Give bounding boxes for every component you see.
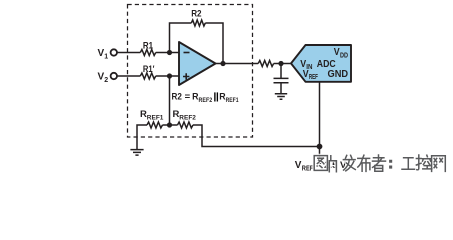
watermark white halo bbox=[314, 155, 445, 172]
svg-text:R1′: R1′ bbox=[143, 64, 155, 75]
svg-text:1: 1 bbox=[104, 53, 108, 60]
resistor R1 bbox=[140, 50, 155, 56]
wire V2 to R1' bbox=[117, 75, 140, 77]
resistor RREF2 bbox=[178, 122, 193, 128]
wire feedback left vertical bbox=[170, 23, 192, 53]
op-amp minus pin mark bbox=[184, 52, 190, 54]
wire stub down to VREF label bbox=[319, 147, 321, 159]
svg-text:REF: REF bbox=[302, 165, 314, 172]
wire RREF2 to VREF node bbox=[193, 125, 320, 147]
svg-text:2: 2 bbox=[104, 77, 108, 84]
svg-text:GND: GND bbox=[328, 69, 349, 80]
resistor R1' bbox=[140, 73, 155, 79]
capacitor C1 bbox=[274, 78, 289, 82]
svg-text:REF: REF bbox=[309, 74, 318, 81]
svg-text:V: V bbox=[295, 160, 302, 171]
wire RREF1 left bbox=[137, 125, 147, 150]
watermark colon bbox=[390, 160, 392, 168]
op-amp A1 bbox=[179, 42, 216, 85]
svg-text:R2: R2 bbox=[172, 92, 182, 103]
node: VREF junction bbox=[317, 144, 323, 150]
svg-text:REF2: REF2 bbox=[179, 115, 196, 122]
node: op-amp output junction bbox=[220, 61, 225, 66]
watermark char 片 bbox=[329, 156, 336, 172]
wire V1 to R1 bbox=[117, 52, 140, 54]
op-amp plus pin mark bbox=[183, 73, 189, 79]
node: R1 to feedback junction bbox=[167, 50, 172, 55]
wire feedback right vertical bbox=[205, 23, 223, 64]
wire RREF1 to RREF2 bbox=[162, 124, 177, 126]
wire capacitor to ground bbox=[280, 83, 282, 94]
svg-text:R2: R2 bbox=[191, 8, 201, 19]
wire to ADC VIN bbox=[274, 63, 291, 65]
svg-text:DD: DD bbox=[340, 52, 348, 59]
node: reference divider junction bbox=[167, 122, 172, 127]
wire R1' to op-amp plus input bbox=[156, 75, 179, 77]
watermark char 图 bbox=[314, 156, 327, 171]
resistor RREF1 bbox=[147, 122, 162, 128]
watermark char 控 bbox=[416, 155, 431, 170]
watermark char 布 bbox=[358, 155, 370, 171]
node: R1' to reference tap junction bbox=[167, 73, 172, 78]
wire op-amp output bbox=[216, 63, 259, 65]
svg-text:REF1: REF1 bbox=[226, 97, 239, 104]
watermark char 者 bbox=[373, 155, 386, 171]
svg-text:REF2: REF2 bbox=[199, 97, 213, 104]
dashed boundary box bbox=[128, 5, 253, 138]
wire plus-input tap down to reference divider bbox=[169, 76, 171, 125]
resistor R2 bbox=[191, 20, 205, 26]
svg-text:REF1: REF1 bbox=[147, 115, 164, 122]
terminal V2 bbox=[111, 73, 117, 79]
watermark char 网 bbox=[432, 156, 446, 172]
watermark char 发 bbox=[343, 155, 355, 171]
ground (reference divider) bbox=[130, 150, 143, 156]
svg-text:R1: R1 bbox=[143, 40, 154, 51]
watermark char 工 bbox=[402, 158, 415, 170]
resistor RC filter bbox=[258, 61, 273, 67]
wire VREF node up to ADC REF pin bbox=[319, 82, 321, 147]
svg-text:=: = bbox=[185, 92, 191, 103]
wire capacitor stem bbox=[280, 64, 282, 79]
wire R1 to op-amp minus input bbox=[156, 52, 179, 54]
ground (capacitor) bbox=[275, 94, 287, 100]
ADC block U1 bbox=[291, 45, 351, 82]
node: capacitor junction bbox=[278, 61, 283, 66]
terminal V1 bbox=[111, 49, 117, 55]
